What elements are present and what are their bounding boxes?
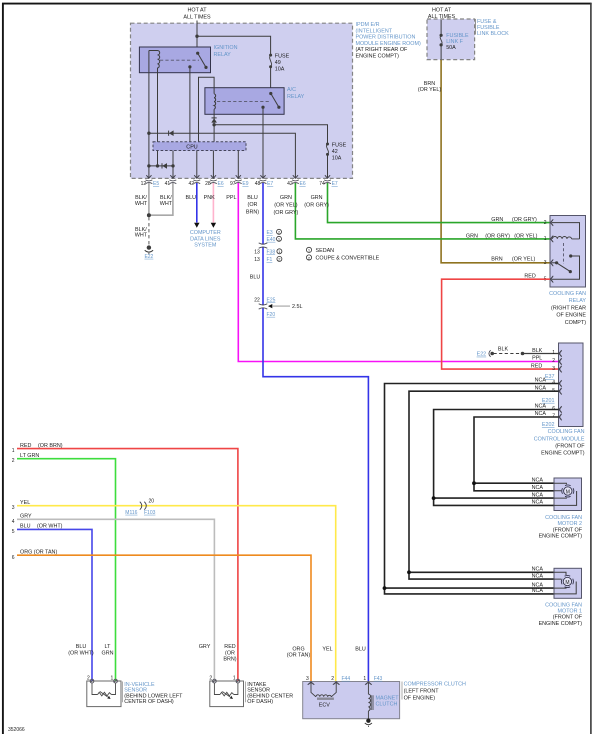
svg-text:(OR WHT): (OR WHT) (37, 524, 63, 530)
svg-text:M116: M116 (125, 510, 137, 516)
circled 2 for F1 (277, 256, 282, 261)
svg-text:NCA: NCA (532, 567, 544, 573)
circled 1 for E40 (277, 236, 282, 241)
svg-text:(OR YEL): (OR YEL) (512, 257, 535, 263)
label NCA 4 (535, 378, 556, 387)
svg-text:13: 13 (254, 257, 260, 263)
cooling fan relay box (550, 216, 586, 288)
svg-text:RELAY: RELAY (287, 94, 305, 100)
svg-text:RED: RED (20, 443, 31, 449)
compressor clutch pin 3 (306, 676, 314, 685)
ignition relay coil (158, 50, 160, 68)
svg-text:E7: E7 (332, 181, 338, 187)
label BLU (OR BRN) (246, 195, 259, 216)
wire BRN (OR YEL) fusible link to cooling fan relay pin 3 (441, 60, 550, 263)
svg-text:RED: RED (531, 363, 542, 369)
svg-text:RELAY: RELAY (214, 52, 232, 58)
svg-text:M: M (565, 580, 569, 586)
wire 3 YEL to compressor clutch pin 2 (17, 506, 336, 681)
wire GRN pin 42 to cooling fan relay pin 1 (295, 183, 550, 239)
fuse and fusible link block box (427, 19, 475, 60)
svg-text:SYSTEM: SYSTEM (194, 243, 217, 249)
A/C relay coil (214, 94, 216, 109)
compressor clutch pin 1 F43 (363, 676, 382, 685)
fusible link F 50A (440, 33, 470, 51)
module pin 4 (559, 380, 562, 387)
svg-text:RELAY: RELAY (569, 298, 587, 304)
svg-text:BLK: BLK (532, 348, 543, 354)
ground lead E22 to module pin 1 (477, 350, 559, 358)
label MAGNET CLUTCH (376, 696, 400, 708)
svg-text:2: 2 (544, 220, 547, 226)
label GRN (OR GRY) 2 (491, 217, 546, 226)
svg-text:2.5L: 2.5L (292, 304, 303, 310)
pin 41 (165, 175, 177, 187)
svg-text:(OR BRN): (OR BRN) (38, 443, 63, 449)
wire fusible link to box bottom (440, 45, 442, 60)
node junction NCA pin4 (383, 586, 387, 590)
label BRN (OR YEL) 3 (491, 257, 546, 266)
IPDM E/R module box (131, 23, 353, 178)
svg-text:BLU: BLU (250, 274, 261, 280)
label GRN (OR YEL) (OR GRY) (274, 195, 299, 216)
svg-text:3: 3 (544, 260, 547, 266)
svg-text:NCA: NCA (532, 492, 544, 498)
label BLK 1 (532, 348, 555, 356)
node junction NCA pin6 (432, 496, 436, 500)
A/C relay box (205, 88, 284, 115)
cooling fan relay pin 1 (550, 236, 553, 243)
module pin 2 (559, 358, 562, 365)
cooling fan relay switch (552, 254, 580, 279)
cooling fan motor 2 box (554, 478, 582, 511)
wire A/C coil top loop to CPU (199, 77, 215, 142)
label GRN (OR GRY) (OR YEL) 1 (466, 234, 547, 243)
label ORG (OR TAN) at clutch (287, 646, 311, 658)
svg-text:2: 2 (331, 676, 334, 682)
svg-text:MOTOR 1: MOTOR 1 (558, 609, 582, 615)
diode on A/C coil lead (211, 118, 217, 123)
svg-text:PNK: PNK (204, 195, 215, 201)
svg-text:GRY: GRY (199, 644, 211, 650)
node junction lower bus right (171, 164, 174, 167)
svg-text:(OR WHT): (OR WHT) (68, 650, 94, 656)
svg-text:1: 1 (233, 676, 236, 682)
wire fuse 49 to A/C relay switch (270, 67, 272, 94)
module pin 5 (559, 388, 562, 395)
svg-text:(AT RIGHT REAR OF: (AT RIGHT REAR OF (356, 47, 409, 53)
svg-text:12: 12 (141, 181, 147, 187)
svg-text:YEL: YEL (20, 500, 30, 506)
pin 28 E6 (205, 175, 224, 187)
svg-text:3: 3 (306, 676, 309, 682)
svg-text:F103: F103 (144, 510, 156, 516)
wire ignition coil bottom down (157, 68, 159, 166)
motor 1 internal wires (554, 572, 576, 594)
node junction on pin-12 lead upper (147, 132, 150, 135)
label HOT AT ALL TIMES (right) (428, 8, 456, 21)
svg-text:E40: E40 (267, 237, 276, 243)
svg-text:1: 1 (363, 676, 366, 682)
svg-text:NCA: NCA (532, 478, 544, 484)
wire BLK/WHT from pin 41 (150, 183, 173, 215)
svg-text:97: 97 (230, 181, 236, 187)
svg-text:NCA: NCA (532, 588, 544, 594)
page frame top border (2, 3, 592, 5)
cooling fan relay pin 3 (550, 260, 553, 267)
wire NCA module pin 7 to motor 2 (474, 417, 559, 491)
label 3 YEL (12, 500, 30, 511)
svg-text:GRN: GRN (466, 234, 478, 240)
inline connector M116/F103 on YEL wire (125, 499, 155, 516)
wire ignition switch output to CPU (189, 67, 191, 142)
svg-text:GRY: GRY (20, 514, 32, 520)
svg-text:10A: 10A (332, 156, 342, 162)
wire CPU to pin 28 data line (212, 151, 214, 179)
circled 1 for F38 (277, 249, 282, 254)
label A/C RELAY (287, 87, 305, 100)
label INTAKE SENSOR (246, 682, 294, 705)
in-vehicle sensor pin 1 (111, 676, 118, 683)
svg-text:COOLING FAN: COOLING FAN (549, 291, 586, 297)
diode D1 (169, 130, 174, 136)
svg-text:BRN): BRN) (223, 657, 236, 663)
svg-text:NCA: NCA (532, 485, 544, 491)
svg-text:MAGNET: MAGNET (376, 696, 400, 702)
label NCA 5 (535, 385, 556, 394)
svg-text:GRN: GRN (280, 195, 292, 201)
svg-text:6: 6 (12, 555, 15, 561)
label COMPUTER DATA LINES SYSTEM (190, 230, 221, 249)
2.5L note arrow (268, 304, 303, 310)
svg-text:MODULE ENGINE ROOM): MODULE ENGINE ROOM) (356, 41, 421, 47)
arrow to computer data lines (PNK) (211, 223, 216, 228)
compressor clutch pin 2 F44 (331, 676, 350, 685)
svg-text:50A: 50A (446, 45, 456, 51)
svg-text:COMPRESSOR CLUTCH: COMPRESSOR CLUTCH (404, 682, 466, 688)
legend circled 2 COUPE & CONVERTIBLE (306, 255, 379, 262)
wire PNK data line (212, 183, 214, 223)
svg-text:NCA: NCA (532, 573, 544, 579)
svg-text:352066: 352066 (8, 727, 25, 733)
svg-text:(OR YEL): (OR YEL) (274, 202, 297, 208)
svg-text:(FRONT OF: (FRONT OF (553, 615, 583, 621)
svg-text:(RIGHT REAR: (RIGHT REAR (551, 305, 586, 311)
label BLK/WHT pin41 (160, 195, 173, 207)
svg-text:(LEFT FRONT: (LEFT FRONT (404, 689, 440, 695)
cooling fan relay pin 2 (550, 219, 553, 226)
cooling fan control module box (559, 343, 584, 427)
in-vehicle sensor pin 2 (87, 676, 94, 683)
pin 12 E5 (141, 175, 160, 187)
svg-text:42: 42 (189, 181, 195, 187)
svg-text:1: 1 (552, 350, 555, 356)
motor 2 internal wires (554, 483, 577, 505)
svg-text:FUSE: FUSE (332, 142, 347, 148)
cooling fan motor 1 box (554, 568, 582, 598)
label IGNITION RELAY (214, 45, 238, 58)
inline connector E40/F38 (259, 243, 268, 248)
label HOT AT ALL TIMES (left) (183, 8, 211, 21)
fuse 49 10A (269, 53, 289, 72)
svg-text:(FRONT OF: (FRONT OF (553, 527, 583, 533)
label COOLING FAN CONTROL MODULE (534, 429, 585, 457)
svg-text:(OR GRY): (OR GRY) (274, 210, 299, 216)
relay internal wire pin2 to coil (552, 223, 580, 239)
ignition relay box (139, 47, 210, 73)
page frame right border (590, 3, 592, 734)
svg-text:2: 2 (87, 676, 90, 682)
node junction coil-bottom to bus (156, 164, 159, 167)
module pin 6 (559, 406, 562, 413)
svg-text:GRN: GRN (102, 650, 114, 656)
wire 6 ORG (OR TAN) to compressor clutch pin 3 (17, 555, 311, 681)
ignition relay switch (188, 52, 207, 69)
svg-text:DATA LINES: DATA LINES (190, 236, 221, 242)
svg-text:ENGINE COMPT): ENGINE COMPT) (541, 451, 585, 457)
svg-text:HOT AT: HOT AT (432, 8, 452, 14)
svg-text:LINK F: LINK F (446, 39, 463, 45)
node junction BLK/WHT (147, 213, 151, 217)
wire BLK/WHT from pin 12 (148, 183, 150, 215)
svg-text:CPU: CPU (186, 145, 197, 151)
svg-text:COOLING FAN: COOLING FAN (548, 429, 585, 435)
label RED (OR BRN) at sensor (223, 644, 236, 662)
svg-text:1: 1 (111, 676, 114, 682)
svg-text:WHT: WHT (135, 201, 148, 207)
svg-text:POWER DISTRIBUTION: POWER DISTRIBUTION (356, 35, 416, 41)
wire junction to fuse 42 (214, 125, 327, 144)
magnet clutch coil (368, 683, 373, 719)
svg-text:BLK: BLK (498, 347, 509, 353)
arrow to computer data lines (BLU) (194, 223, 199, 228)
pin 48 E7 (255, 175, 274, 187)
svg-text:3: 3 (552, 366, 555, 372)
intake sensor pin 1 (233, 676, 240, 683)
wire bus to pin 42 (to cooling fan relay pin 1) (149, 133, 296, 178)
wire 4 GRY to intake sensor pin 2 (17, 519, 214, 681)
connector E25/F20 labels (254, 298, 275, 318)
svg-text:BLU: BLU (355, 646, 366, 652)
svg-text:1: 1 (12, 448, 15, 454)
svg-text:SEDAN: SEDAN (316, 248, 335, 254)
label FUSE & FUSIBLE LINK BLOCK (475, 19, 509, 37)
svg-text:E202: E202 (542, 422, 555, 428)
svg-text:BLU: BLU (20, 524, 31, 530)
svg-text:YEL: YEL (322, 646, 332, 652)
label PPL 2 (532, 356, 555, 365)
svg-text:48: 48 (255, 181, 261, 187)
svg-text:74: 74 (319, 181, 325, 187)
node junction NCA pin5 (407, 570, 411, 574)
svg-text:COOLING FAN: COOLING FAN (545, 515, 582, 521)
svg-text:COOLING FAN: COOLING FAN (545, 602, 582, 608)
svg-text:ENGINE COMPT): ENGINE COMPT) (356, 54, 400, 60)
module pin 7 (559, 414, 562, 421)
wire lower diode bus (149, 165, 173, 167)
svg-text:FUSIBLE: FUSIBLE (446, 33, 469, 39)
svg-text:20: 20 (149, 499, 155, 505)
wire GRN pin 74 to cooling fan relay pin 2 (328, 183, 551, 223)
svg-text:49: 49 (275, 60, 281, 66)
wire 1 RED (OR BRN) to intake sensor pin 1 (17, 449, 238, 681)
cooling fan relay coil (553, 237, 580, 239)
clutch ground node (365, 719, 372, 728)
label 1 RED (OR BRN) (12, 443, 63, 454)
label 2 LT GRN (12, 453, 40, 464)
svg-text:IPDM E/R: IPDM E/R (356, 22, 380, 28)
svg-text:2: 2 (552, 358, 555, 364)
svg-text:5: 5 (12, 529, 15, 535)
node junction A/C coil branch (212, 123, 215, 126)
pin 42 E6 (287, 175, 306, 187)
wire NCA module pin 5 to motor 1 (409, 391, 559, 579)
svg-text:IGNITION: IGNITION (214, 45, 238, 51)
svg-text:E9: E9 (242, 181, 248, 187)
svg-text:WHT: WHT (160, 201, 173, 207)
svg-text:LINK BLOCK: LINK BLOCK (477, 31, 509, 37)
svg-text:(INTELLIGENT: (INTELLIGENT (356, 28, 393, 34)
svg-text:PPL: PPL (532, 356, 542, 362)
svg-text:E6: E6 (218, 181, 224, 187)
CPU box (153, 142, 246, 151)
svg-text:4: 4 (12, 519, 15, 525)
A/C relay switch (261, 92, 280, 109)
svg-text:CENTER OF DASH): CENTER OF DASH) (124, 699, 174, 705)
cooling fan relay pin 5 (550, 276, 553, 283)
label COOLING FAN RELAY (549, 291, 586, 326)
svg-text:COUPE & CONVERTIBLE: COUPE & CONVERTIBLE (316, 256, 380, 262)
svg-text:LT: LT (105, 644, 112, 650)
svg-text:BRN: BRN (491, 257, 502, 263)
fuse 42 10A (326, 142, 347, 161)
svg-text:41: 41 (165, 181, 171, 187)
svg-text:(FRONT OF: (FRONT OF (555, 444, 585, 450)
svg-text:NCA: NCA (532, 500, 544, 506)
svg-text:(OR GRY): (OR GRY) (304, 202, 329, 208)
svg-text:1: 1 (544, 236, 547, 242)
svg-text:(OR GRY): (OR GRY) (485, 234, 510, 240)
svg-text:GRN: GRN (311, 195, 323, 201)
svg-text:E6: E6 (300, 181, 306, 187)
svg-text:BLU: BLU (76, 644, 87, 650)
wire CPU to pin 41 (172, 151, 174, 179)
svg-text:E25: E25 (267, 298, 276, 304)
svg-text:ENGINE COMPT): ENGINE COMPT) (539, 534, 583, 540)
wire BLU pin 48 to compressor clutch pin 1 (263, 183, 368, 681)
label BLK/WHT ground lead (135, 227, 148, 239)
wire A/C coil bottom down to CPU (213, 109, 215, 142)
intake sensor box (210, 681, 244, 707)
svg-text:ALL TIMES: ALL TIMES (183, 14, 211, 20)
svg-text:A/C: A/C (287, 87, 296, 93)
wire coil-top lead down to pin 12 (148, 51, 150, 179)
wire CPU to pin 42 data line (196, 151, 198, 179)
svg-text:CLUTCH: CLUTCH (376, 702, 398, 708)
label BLU (OR WHT) at sensor (68, 644, 94, 656)
svg-text:OF ENGINE: OF ENGINE (556, 313, 586, 319)
svg-text:PPL: PPL (226, 195, 236, 201)
node junction lower bus left (147, 164, 150, 167)
svg-text:F43: F43 (374, 676, 383, 682)
label BLK/WHT pin12 (135, 195, 148, 207)
node junction at top feed (195, 35, 198, 38)
svg-text:F38: F38 (267, 249, 276, 255)
label IN-VEHICLE SENSOR (123, 682, 184, 705)
svg-text:FUSE: FUSE (275, 53, 290, 59)
svg-text:(OR GRY): (OR GRY) (512, 217, 537, 223)
svg-text:(OR: (OR (225, 650, 235, 656)
wire into fusible link (440, 20, 442, 35)
label COOLING FAN MOTOR 2 (539, 515, 583, 540)
label NCA 7 (535, 411, 556, 420)
label RED 5 (524, 273, 546, 282)
svg-text:2: 2 (209, 676, 212, 682)
svg-text:M: M (566, 489, 570, 495)
wire A/C switch output to pin 48 (262, 107, 264, 178)
wire NCA module pin 6 to motor 2 (434, 410, 559, 506)
svg-text:E5: E5 (153, 181, 159, 187)
svg-text:ORG (OR TAN): ORG (OR TAN) (20, 549, 57, 555)
svg-text:COMPT): COMPT) (565, 320, 586, 326)
in-vehicle sensor box (87, 681, 121, 707)
wire PPL pin 97 to fan control module pin 2 (238, 183, 558, 362)
svg-text:28: 28 (205, 181, 211, 187)
svg-text:BRN): BRN) (246, 210, 259, 216)
wire NCA module pin 4 to motor 1 (385, 384, 559, 594)
node junction NCA pin7 (472, 481, 476, 485)
svg-text:3: 3 (12, 505, 15, 511)
svg-text:42: 42 (287, 181, 293, 187)
label BRN (OR YEL) (418, 81, 441, 93)
wire fuse 42 to pin 74 (327, 154, 329, 178)
svg-text:E3: E3 (267, 230, 273, 236)
svg-text:2: 2 (12, 458, 15, 464)
legend circled 1 SEDAN (306, 247, 334, 254)
ignition relay dashed link (160, 59, 199, 61)
svg-text:COMPUTER: COMPUTER (190, 230, 221, 236)
inline connector E25/F20 (259, 304, 268, 309)
svg-text:BLU: BLU (186, 195, 197, 201)
label COMPRESSOR CLUTCH (402, 682, 466, 702)
label LT GRN at sensor (102, 644, 114, 656)
connector F38/F1 labels (254, 249, 275, 263)
intake sensor thermistor (214, 683, 238, 699)
ECV solenoid (311, 683, 336, 700)
module pin 1 (559, 350, 562, 357)
svg-text:WHT: WHT (135, 233, 148, 239)
pin 42 (data) (189, 175, 201, 187)
pin 97 E9 (230, 175, 249, 187)
svg-text:(OR TAN): (OR TAN) (287, 653, 311, 659)
svg-text:CONTROL MODULE: CONTROL MODULE (534, 436, 585, 442)
wire 5 BLU (OR WHT) to in-vehicle sensor pin 2 (17, 529, 92, 681)
svg-text:E37: E37 (545, 374, 555, 380)
svg-text:E7: E7 (267, 181, 273, 187)
svg-text:E22: E22 (144, 254, 153, 260)
pin 74 E7 (319, 175, 338, 187)
svg-text:GRN: GRN (491, 217, 503, 223)
wire from HOT AT ALL TIMES down to ignition relay switch (196, 21, 198, 54)
label COOLING FAN MOTOR 1 (539, 602, 583, 627)
circled 2 for E3 (277, 229, 282, 234)
wire from junction to fuse 49 (197, 36, 271, 55)
svg-text:ENGINE COMPT): ENGINE COMPT) (539, 621, 583, 627)
svg-text:MOTOR 2: MOTOR 2 (558, 521, 582, 527)
svg-text:F20: F20 (267, 312, 276, 318)
svg-text:BLU: BLU (247, 195, 258, 201)
wire BLK/WHT dashed to ground (148, 217, 150, 245)
